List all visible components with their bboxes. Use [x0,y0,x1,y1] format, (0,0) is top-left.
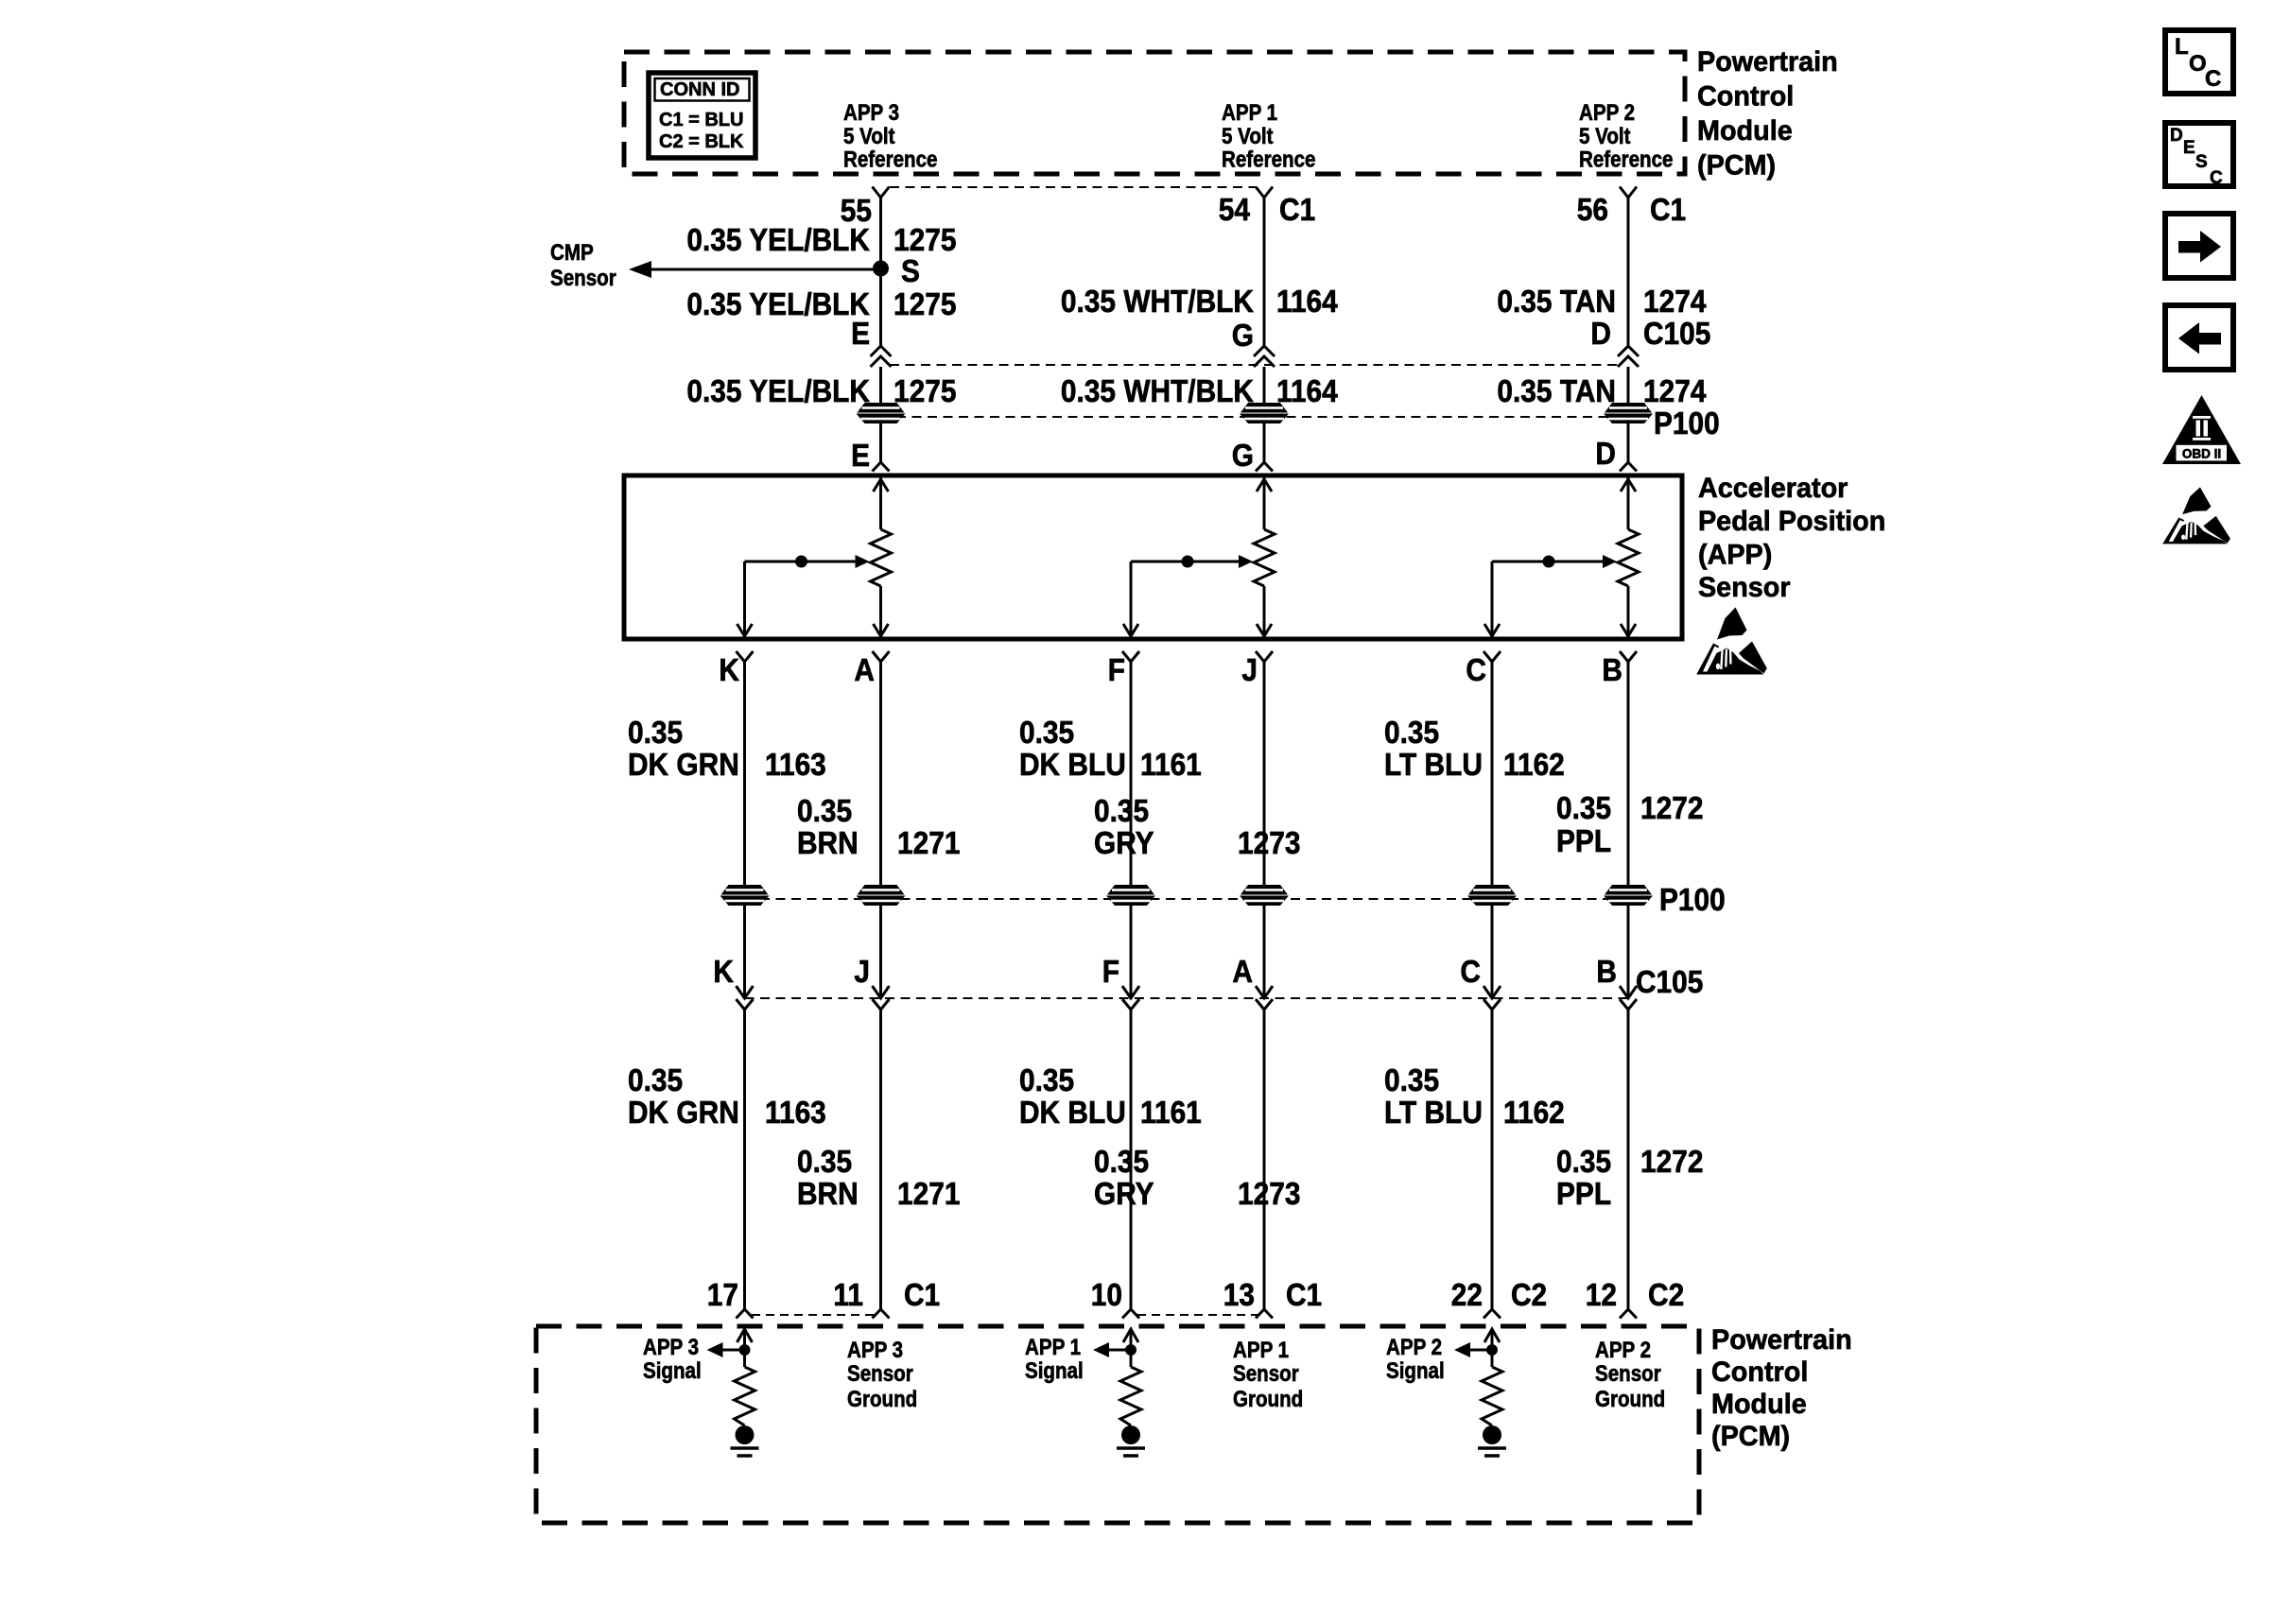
label APP 1 Signal [1025,1334,1084,1383]
svg-text:C: C [1460,955,1481,990]
svg-text:(PCM): (PCM) [1697,149,1776,181]
svg-text:17: 17 [707,1278,738,1313]
grommet P100 pass-through (WHT/BLK wire) [1240,403,1289,423]
wire at x=1578 from C105 to PCM [1491,1010,1494,1307]
wire 1163 DK GRN from pin K to P100 [743,673,746,885]
svg-text:CMP: CMP [550,239,594,265]
svg-text:E: E [2183,138,2195,158]
svg-text:E: E [851,439,870,474]
potentiometer APP 2 inside APP sensor [1484,477,1639,636]
svg-text:Reference: Reference [843,147,937,172]
svg-text:0.35: 0.35 [628,1063,683,1098]
wire 1162 LT BLU from pin C to P100 [1491,673,1494,885]
grommet P100 pass-through (YEL/BLK wire) [857,403,906,423]
svg-text:DK GRN: DK GRN [628,1096,739,1131]
svg-text:56: 56 [1577,193,1608,228]
svg-text:0.35: 0.35 [1094,794,1149,829]
ground symbol APP 3 [731,1425,759,1456]
svg-text:APP 3: APP 3 [847,1337,903,1362]
connector at APP sensor pin A (below box) [873,651,890,673]
wire at x=1337 from C105 to PCM [1263,1010,1266,1307]
svg-text:APP 2: APP 2 [1595,1337,1651,1362]
svg-text:BRN: BRN [797,1177,859,1212]
connector C105 crossing at x=1337 [1256,986,1273,1010]
svg-text:Reference: Reference [1579,147,1673,172]
svg-text:APP 3: APP 3 [843,99,899,125]
svg-text:APP 3: APP 3 [643,1334,699,1359]
svg-text:S: S [901,254,920,289]
wire 1273 GRY from pin J to P100 [1263,673,1266,885]
label APP 2 Signal [1386,1334,1445,1383]
svg-text:1271: 1271 [897,826,960,861]
label 0.35 TAN 1274 (row 2) [1497,285,1706,320]
icon OBD II [2162,395,2241,464]
label 0.35 PPL 1272 (lower) [1556,1145,1703,1212]
APP 1 Signal input circuit inside PCM [1093,1329,1138,1367]
icon back arrow [2165,305,2233,370]
label APP 1 5 Volt Reference [1222,99,1315,172]
svg-text:1275: 1275 [894,223,956,258]
svg-text:0.35: 0.35 [1556,791,1611,826]
wire at x=1578 from P100 to C105 [1491,906,1494,998]
connector at APP sensor pin B (below box) [1620,651,1637,673]
svg-text:Ground: Ground [1595,1386,1665,1411]
label 0.35 DK GRN 1163 (lower) [628,1063,826,1131]
connector C105 crossing at x=787.5 [737,986,754,1010]
ground symbol APP 2 [1478,1425,1506,1456]
grommet P100 pass-through (wire F) [1106,885,1155,906]
wire 1161 DK BLU from pin F to P100 [1130,673,1133,885]
svg-text:Sensor: Sensor [847,1360,913,1386]
svg-text:APP 2: APP 2 [1579,99,1635,125]
svg-text:Control: Control [1711,1356,1808,1388]
svg-text:LT BLU: LT BLU [1384,748,1483,783]
svg-text:0.35 YEL/BLK: 0.35 YEL/BLK [686,223,870,258]
ground symbol APP 1 [1117,1425,1145,1456]
potentiometer APP 1 inside APP sensor [1123,477,1275,636]
icon LOC (location) [2165,30,2233,94]
connector pin 10 at PCM (bottom) [1122,1307,1139,1319]
svg-text:Control: Control [1697,80,1794,112]
svg-text:0.35 YEL/BLK: 0.35 YEL/BLK [686,374,870,409]
connector pin 22 at PCM (bottom) [1484,1307,1501,1319]
wire at x=1196 from P100 to C105 [1130,906,1133,998]
resistor (pull-up) APP 3 inside PCM [735,1367,755,1425]
svg-text:C2: C2 [1648,1278,1684,1313]
label APP 3 Sensor Ground [847,1337,917,1411]
svg-text:K: K [713,955,734,990]
svg-text:Ground: Ground [847,1386,917,1411]
svg-text:1163: 1163 [765,748,826,783]
connector C105 pin G chevrons [1254,346,1275,367]
svg-text:D: D [2170,126,2183,146]
svg-text:0.35: 0.35 [628,716,683,751]
label 0.35 GRY 1273 (upper) [1094,794,1300,861]
connector at APP sensor pin C (below box) [1484,651,1501,673]
label 0.35 DK BLU 1161 (lower) [1019,1063,1202,1131]
svg-text:GRY: GRY [1094,826,1154,861]
svg-text:S: S [2195,152,2208,172]
label APP 2 Sensor Ground [1595,1337,1665,1411]
svg-text:11: 11 [833,1278,863,1313]
svg-text:C1 = BLU: C1 = BLU [659,110,743,130]
svg-text:5 Volt: 5 Volt [843,123,895,148]
svg-text:Accelerator: Accelerator [1698,472,1848,504]
connector C1 pin 54 (APP 1 5V reference) [1256,187,1273,205]
connector C1 dashed body line between pins 17 and 11 [752,1314,875,1316]
svg-text:Pedal Position: Pedal Position [1698,505,1885,537]
grommet P100 pass-through (TAN wire) [1604,403,1653,423]
svg-text:C2: C2 [1511,1278,1547,1313]
svg-text:1275: 1275 [894,374,956,409]
svg-text:1274: 1274 [1643,285,1707,320]
wire 1164 WHT/BLK from C105 to P100 [1263,367,1266,403]
svg-text:Ground: Ground [1233,1386,1303,1411]
svg-text:APP 1: APP 1 [1025,1334,1081,1359]
wire at x=931.5 from C105 to PCM [879,1010,882,1307]
svg-text:J: J [1241,653,1258,688]
svg-text:G: G [1232,319,1254,354]
svg-text:Sensor: Sensor [1698,571,1791,603]
label Powertrain Control Module (PCM) top [1697,45,1838,181]
label 0.35 BRN 1271 (upper) [797,794,960,861]
wire branch to CMP sensor [629,261,881,278]
wire at x=787.5 from C105 to PCM [743,1010,746,1307]
wire at x=787.5 from P100 to C105 [743,906,746,998]
connector pin 12 at PCM (bottom) [1620,1307,1637,1319]
svg-text:C: C [1466,653,1486,688]
svg-text:0.35: 0.35 [797,794,852,829]
svg-text:1274: 1274 [1643,374,1707,409]
label 0.35 DK BLU 1161 (upper) [1019,716,1202,783]
svg-text:1162: 1162 [1503,1096,1565,1131]
svg-text:C105: C105 [1643,317,1710,352]
svg-text:E: E [851,317,870,352]
svg-text:0.35: 0.35 [1384,716,1439,751]
svg-text:C105: C105 [1636,965,1703,1000]
svg-text:D: D [1595,437,1616,472]
svg-text:PPL: PPL [1556,1177,1611,1212]
label 0.35 BRN 1271 (lower) [797,1145,960,1212]
svg-text:1273: 1273 [1238,1177,1300,1212]
svg-text:OBD II: OBD II [2182,447,2221,461]
svg-text:13: 13 [1223,1278,1255,1313]
svg-text:G: G [1232,439,1254,474]
svg-text:1272: 1272 [1640,791,1703,826]
label APP 3 5 Volt Reference [843,99,937,172]
label APP 2 5 Volt Reference [1579,99,1673,172]
label 0.35 WHT/BLK 1164 (row 2) [1061,285,1338,320]
svg-text:1161: 1161 [1140,748,1202,783]
svg-text:Reference: Reference [1222,147,1315,172]
svg-text:1273: 1273 [1238,826,1300,861]
svg-text:12: 12 [1586,1278,1617,1313]
wire at x=1722 from C105 to PCM [1627,1010,1630,1307]
label 0.35 GRY 1273 (lower) [1094,1145,1300,1212]
svg-text:D: D [1590,317,1611,352]
svg-text:C2 = BLK: C2 = BLK [659,131,744,152]
wire 1164 WHT/BLK from pin 54 to C105 pin G [1263,204,1266,346]
wire YEL/BLK from P100 to APP sensor pin E [879,423,882,460]
grommet P100 pass-through (wire J) [1240,885,1289,906]
svg-text:5 Volt: 5 Volt [1579,123,1631,148]
svg-text:Module: Module [1711,1388,1807,1420]
svg-text:LT BLU: LT BLU [1384,1096,1483,1131]
svg-text:0.35: 0.35 [1556,1145,1611,1180]
svg-text:O: O [2189,51,2207,77]
svg-text:0.35 TAN: 0.35 TAN [1497,285,1616,320]
svg-text:0.35: 0.35 [1384,1063,1439,1098]
svg-text:(PCM): (PCM) [1711,1420,1790,1452]
wire 1274 TAN from pin 56 to C105 pin D [1627,204,1630,346]
svg-text:0.35: 0.35 [797,1145,852,1180]
svg-text:1163: 1163 [765,1096,826,1131]
connector at APP sensor pin E [873,460,890,472]
wire at x=1722 from P100 to C105 [1627,906,1630,998]
connector C1 dashed body line between pins 10 and 13 [1137,1314,1258,1316]
grommet P100 dashed line (lower) [745,898,1629,900]
svg-text:Powertrain: Powertrain [1711,1323,1852,1356]
connector C1 pin 56 (APP 2 5V reference) [1620,187,1637,205]
PCM module box (bottom): Powertrain Control Module dashed outline [536,1326,1699,1523]
connector C105 crossing at x=1578 [1484,986,1501,1010]
connector C105 pin D chevrons [1618,346,1639,367]
grommet P100 dashed line (top) [881,416,1629,418]
svg-text:F: F [1108,653,1125,688]
CONN ID legend box (C1 = BLU, C2 = BLK) [649,73,755,158]
svg-text:(APP): (APP) [1698,539,1772,571]
label 0.35 LT BLU 1162 (lower) [1384,1063,1565,1131]
wire at x=1337 from P100 to C105 [1263,906,1266,998]
svg-text:1271: 1271 [897,1177,960,1212]
resistor (pull-up) APP 2 inside PCM [1482,1367,1502,1425]
svg-text:Powertrain: Powertrain [1697,45,1838,78]
APP 3 Signal input circuit inside PCM [707,1329,753,1367]
svg-text:Signal: Signal [643,1357,702,1383]
svg-text:C1: C1 [1286,1278,1322,1313]
connector pin 11 at PCM (bottom) [873,1307,890,1319]
svg-text:C1: C1 [1279,193,1315,228]
svg-text:1275: 1275 [894,287,956,322]
svg-text:Module: Module [1697,114,1793,147]
svg-text:BRN: BRN [797,826,859,861]
svg-text:C1: C1 [904,1278,940,1313]
svg-text:Sensor: Sensor [1233,1360,1299,1386]
svg-text:10: 10 [1091,1278,1122,1313]
icon forward arrow [2165,214,2233,278]
grommet P100 pass-through (wire B) [1604,885,1653,906]
connector C105 crossing at x=931.5 [873,986,890,1010]
connector C105 dashed body line (lower) [745,997,1629,999]
svg-text:CONN ID: CONN ID [660,79,739,100]
connector at APP sensor pin G [1256,460,1273,472]
label Powertrain Control Module (PCM) bottom [1711,1323,1852,1452]
svg-text:B: B [1596,955,1617,990]
svg-text:Signal: Signal [1386,1357,1445,1383]
connector C105 crossing at x=1722 [1620,986,1637,1010]
label 0.35 TAN 1274 (row 3) [1497,374,1706,409]
label 0.35 PPL 1272 (upper) [1556,791,1703,859]
svg-text:0.35: 0.35 [1019,1063,1074,1098]
svg-text:22: 22 [1451,1278,1483,1313]
svg-text:1164: 1164 [1276,374,1338,409]
resistor (pull-up) APP 1 inside PCM [1120,1367,1141,1425]
svg-text:DK BLU: DK BLU [1019,748,1126,783]
svg-text:K: K [719,653,739,688]
ESD sensitive device icon (next to APP sensor) [1696,608,1767,675]
svg-text:0.35 TAN: 0.35 TAN [1497,374,1616,409]
grommet P100 pass-through (wire K) [720,885,770,906]
label 0.35 YEL/BLK 1275 (upper) [686,223,956,258]
label 0.35 DK GRN 1163 (upper) [628,716,826,783]
svg-text:C: C [2205,66,2221,92]
wire 1271 BRN from pin A to P100 [879,673,882,885]
Accelerator Pedal Position (APP) Sensor box [624,475,1682,639]
connector at APP sensor pin F (below box) [1122,651,1139,673]
wire WHT/BLK from P100 to APP sensor pin G [1263,423,1266,460]
connector C105 dashed body line (top) [890,364,1620,366]
svg-text:A: A [1232,955,1253,990]
svg-text:APP 2: APP 2 [1386,1334,1442,1359]
potentiometer APP 3 inside APP sensor [737,477,892,636]
wire 1275 YEL/BLK from C105 to P100 [879,367,882,403]
svg-text:0.35 WHT/BLK: 0.35 WHT/BLK [1061,374,1254,409]
connector C1 pin 55 (APP 3 5V reference) [873,187,890,205]
wire 1272 PPL from pin B to P100 [1627,673,1630,885]
svg-text:Signal: Signal [1025,1357,1084,1383]
svg-text:DK GRN: DK GRN [628,748,739,783]
svg-text:APP 1: APP 1 [1233,1337,1289,1362]
connector at APP sensor pin D [1620,460,1637,472]
APP 2 Signal input circuit inside PCM [1454,1329,1500,1367]
wire at x=931.5 from P100 to C105 [879,906,882,998]
icon DESC (description) [2165,123,2233,188]
svg-text:0.35: 0.35 [1094,1145,1149,1180]
svg-text:J: J [854,955,870,990]
label 0.35 LT BLU 1162 (upper) [1384,716,1565,783]
connector C105 pin E chevrons [871,346,892,367]
svg-text:B: B [1602,653,1622,688]
svg-text:0.35: 0.35 [1019,716,1074,751]
label Accelerator Pedal Position (APP) Sensor [1698,472,1885,603]
connector C105 crossing at x=1196 [1122,986,1139,1010]
icon ESD sensitive device (right column) [2162,487,2230,544]
label APP 1 Sensor Ground [1233,1337,1303,1411]
label 0.35 YEL/BLK 1275 (row 2) [686,287,956,322]
node S: splice of YEL/BLK 1275 to CMP sensor [873,261,889,277]
svg-text:1272: 1272 [1640,1145,1703,1180]
wire TAN from P100 to APP sensor pin D [1627,423,1630,460]
label 0.35 WHT/BLK 1164 (row 3) [1061,374,1338,409]
svg-text:GRY: GRY [1094,1177,1154,1212]
grommet P100 pass-through (wire C) [1467,885,1517,906]
svg-text:F: F [1102,955,1119,990]
connector C1 dashed body line between pins 55 and 54 [890,186,1256,188]
label APP 3 Signal [643,1334,702,1383]
svg-text:L: L [2175,34,2189,60]
svg-text:DK BLU: DK BLU [1019,1096,1126,1131]
svg-text:C1: C1 [1650,193,1686,228]
connector at APP sensor pin J (below box) [1256,651,1273,673]
svg-text:0.35 YEL/BLK: 0.35 YEL/BLK [686,287,870,322]
svg-text:Sensor: Sensor [550,265,616,290]
svg-text:1164: 1164 [1276,285,1338,320]
svg-text:1162: 1162 [1503,748,1565,783]
svg-text:54: 54 [1219,193,1251,228]
grommet P100 pass-through (wire A) [857,885,906,906]
wire 1275 YEL/BLK from pin 55 to C105 pin E [879,204,882,346]
svg-text:Sensor: Sensor [1595,1360,1661,1386]
PCM module box (top): Powertrain Control Module dashed outline [624,52,1685,174]
svg-text:PPL: PPL [1556,824,1611,859]
label CMP Sensor [550,239,616,290]
wire at x=1196 from C105 to PCM [1130,1010,1133,1307]
svg-text:P100: P100 [1654,406,1720,441]
svg-text:A: A [854,653,875,688]
label 0.35 YEL/BLK 1275 (row 3) [686,374,956,409]
wire 1274 TAN from C105 to P100 [1627,367,1630,403]
svg-text:APP 1: APP 1 [1222,99,1277,125]
svg-text:5 Volt: 5 Volt [1222,123,1274,148]
svg-text:1161: 1161 [1140,1096,1202,1131]
svg-text:0.35 WHT/BLK: 0.35 WHT/BLK [1061,285,1254,320]
connector at APP sensor pin K (below box) [737,651,754,673]
connector pin 17 at PCM (bottom) [737,1307,754,1319]
svg-text:P100: P100 [1659,883,1726,918]
connector pin 13 at PCM (bottom) [1256,1307,1273,1319]
svg-text:C: C [2210,168,2223,188]
